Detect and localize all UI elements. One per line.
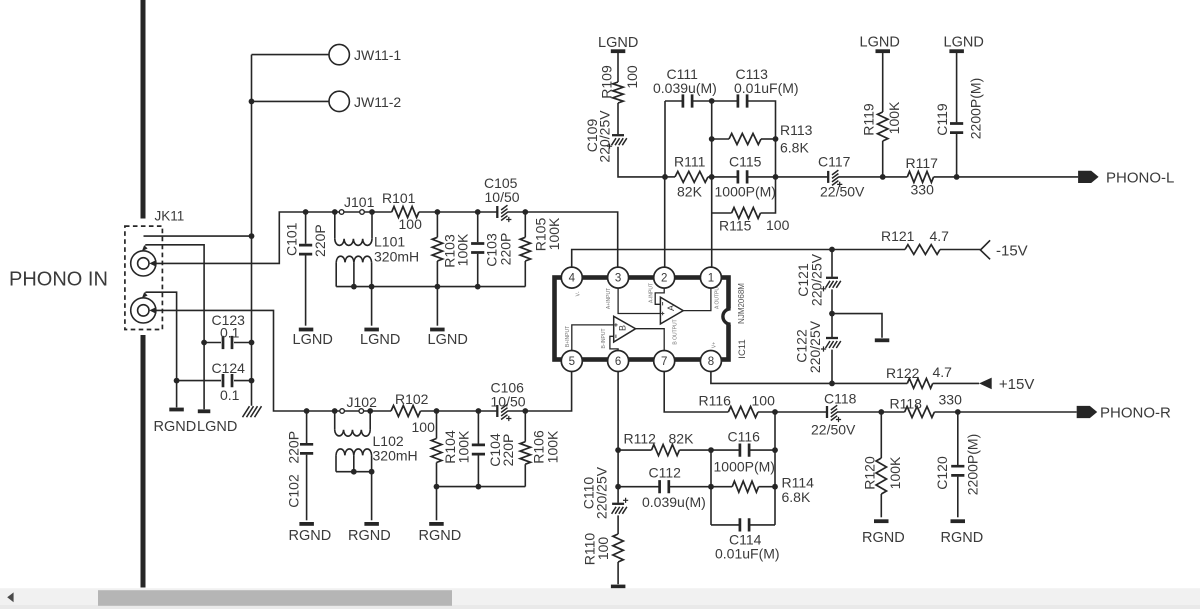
capacitor C118 (series electrolytic) [826,406,828,418]
svg-text:R112: R112 [624,431,657,447]
svg-text:4.7: 4.7 [933,364,953,380]
svg-text:220P: 220P [285,431,301,464]
resistor R106 [522,408,528,414]
svg-text:LGND: LGND [860,35,900,51]
resistor R104 [434,408,440,414]
svg-text:100: 100 [766,217,790,233]
wire pin7 internal [636,329,665,351]
svg-text:1000P(M): 1000P(M) [714,459,775,475]
wire pin6 internal [610,336,618,350]
jumper pad JW11-2 [329,91,349,111]
svg-text:100K: 100K [454,233,470,266]
wire C111 to C113 [692,100,739,102]
chassis ground (JW11 net) [243,406,262,417]
scrollbar track [0,588,1200,605]
svg-text:R102: R102 [395,391,429,407]
wire X2R riser [774,412,776,525]
wire pin2 riser [664,177,666,267]
ground LGND (L101) [364,328,379,332]
svg-text:C119: C119 [934,103,950,136]
resistor R116 [728,407,758,418]
ground RGND (C102) [299,522,314,526]
wire R109 to C109 [617,103,619,134]
wire input row after R101 [419,211,497,213]
svg-text:C117: C117 [818,154,851,170]
svg-text:RGND: RGND [154,419,197,435]
wire -15V rail from pin4 [572,250,905,268]
wire pin3 internal [618,288,660,313]
svg-text:PHONO-L: PHONO-L [1106,170,1174,187]
svg-text:JW11-2: JW11-2 [354,94,401,110]
wire jack L signal to input row [156,212,392,263]
IC IC11 body [555,278,729,360]
node feedback L input [662,174,668,180]
wire C115 right [747,176,829,178]
capacitor C112 [618,486,660,488]
svg-text:100: 100 [595,537,611,561]
svg-text:R101: R101 [382,190,416,206]
svg-text:-15V: -15V [996,243,1028,260]
wire input row to pin3 [507,212,617,267]
svg-text:JK11: JK11 [155,209,185,224]
resistor R115 parallel loop [712,212,732,214]
capacitor C111 [665,100,683,102]
svg-text:4: 4 [569,273,576,285]
terminal -15V [980,240,990,259]
capacitor C105 (series electrolytic) [496,206,498,218]
svg-text:6.8K: 6.8K [782,489,811,505]
svg-text:22/50V: 22/50V [811,422,856,438]
pin 7 [654,351,675,372]
wire input row to pin5 [507,372,571,411]
svg-text:0.039u(M): 0.039u(M) [642,494,706,510]
capacitor C117 (series electrolytic) [827,171,829,183]
wire R122 to +15V [933,382,979,384]
capacitor C124 [223,374,232,387]
svg-text:100K: 100K [545,430,561,463]
svg-text:R109: R109 [599,65,615,99]
svg-text:4.7: 4.7 [930,228,950,244]
svg-text:100: 100 [399,216,423,232]
svg-text:330: 330 [939,392,963,408]
pin 8 [700,351,721,372]
wire jack R shield to RGND column [145,292,176,407]
svg-text:220/25V: 220/25V [597,110,613,163]
svg-text:0.1: 0.1 [220,387,240,403]
ground LGND (jack) [198,409,211,413]
svg-text:PHONO-R: PHONO-R [1100,405,1171,422]
svg-text:R113: R113 [780,122,813,138]
svg-text:100K: 100K [546,217,562,250]
capacitor C115 [738,170,747,183]
terminal +15V [979,378,992,390]
svg-text:330: 330 [911,182,935,198]
svg-text:82K: 82K [669,431,695,447]
svg-text:3: 3 [615,273,621,285]
svg-text:IC11: IC11 [737,339,748,358]
capacitor C122 (electrolytic) [826,337,838,339]
svg-text:82K: 82K [677,184,703,200]
capacitor C123 [223,336,232,349]
svg-text:0.01uF(M): 0.01uF(M) [715,546,780,562]
svg-text:R111: R111 [674,154,706,170]
svg-text:8: 8 [708,356,714,368]
resistor R109 [613,82,623,103]
svg-text:NJM2068M: NJM2068M [737,283,746,324]
svg-text:LGND: LGND [598,35,638,51]
wire pin2 internal [655,288,664,304]
svg-text:100: 100 [624,65,640,89]
wire jack L shield to LGND column [145,245,204,409]
svg-text:LGND: LGND [293,332,333,348]
svg-text:100K: 100K [456,430,472,463]
svg-text:6: 6 [615,356,621,368]
capacitor C119 to LGND [949,49,964,53]
junction JW11-2 [249,99,255,105]
capacitor C120 to RGND [957,412,959,465]
svg-text:220/25V: 220/25V [593,466,609,519]
resistor R111 [665,176,675,178]
wire C117 to R117 [838,176,907,178]
resistor R117 [907,171,933,182]
wire LGND drop R103 rail [436,287,438,326]
terminal PHONO-R [1077,406,1098,418]
svg-text:220P: 220P [500,434,516,467]
svg-text:B-INPUT: B-INPUT [601,329,607,349]
svg-text:100: 100 [412,419,436,435]
svg-text:10/50: 10/50 [491,394,526,410]
svg-text:320mH: 320mH [374,248,419,264]
svg-text:6.8K: 6.8K [780,140,809,156]
wire input row after R102 [421,410,498,412]
wire R121 to -15V [940,249,980,251]
svg-text:RGND: RGND [289,528,332,544]
scrollbar left arrow [7,592,13,602]
RCA jack L (top) [131,251,156,276]
capacitor C113 [738,94,747,107]
wire pin6 column to C112 node [617,450,619,487]
wire pin7 to R116 [664,372,728,412]
svg-text:A-INPUT: A-INPUT [649,283,655,303]
svg-text:C120: C120 [934,456,950,490]
resistor R112 [618,449,651,451]
svg-text:0.039u(M): 0.039u(M) [653,80,717,96]
capacitor C104 [476,408,482,414]
svg-text:C115: C115 [729,154,762,170]
svg-text:+15V: +15V [999,376,1034,393]
wire R117 to PHONO-L [934,176,1079,178]
resistor R110 [617,515,619,534]
capacitor C106 (series electrolytic) [496,405,498,417]
svg-text:C116: C116 [728,429,761,445]
resistor R103 [435,209,441,215]
wire +15V rail from pin8 [711,372,907,384]
svg-text:22/50V: 22/50V [820,184,865,200]
capacitor C116 [711,449,740,451]
svg-text:B: B [618,325,628,331]
svg-text:RGND: RGND [348,528,391,544]
svg-text:LGND: LGND [944,35,984,51]
wire midpoint to ground bar [832,314,882,338]
svg-text:0.01uF(M): 0.01uF(M) [734,80,799,96]
svg-text:RGND: RGND [419,528,462,544]
svg-text:100: 100 [752,393,776,409]
svg-text:C112: C112 [649,465,682,481]
wire X1 riser [711,101,713,177]
pin 4 [561,267,582,288]
op-amp A [660,297,683,324]
svg-text:LGND: LGND [360,332,400,348]
jumper pad JW11-1 [329,44,349,64]
svg-text:R115: R115 [719,218,752,234]
svg-text:C124: C124 [212,360,246,376]
resistor R121 [905,245,940,255]
pin 6 [608,351,629,372]
resistor R114 [711,486,732,488]
svg-text:R119: R119 [861,103,877,136]
svg-text:C101: C101 [284,222,300,256]
resistor R101 [392,207,419,218]
wire L ground rail [336,286,525,288]
RCA jack R (bottom) [131,298,156,323]
svg-text:V-: V- [575,291,581,296]
resistor R119 to LGND [876,49,891,53]
wire RGND drop L102 [371,472,373,521]
svg-text:0.1: 0.1 [220,324,240,340]
resistor R120 to RGND [880,412,882,458]
capacitor C103 [475,209,481,215]
svg-text:J101: J101 [344,194,375,210]
ground RGND (jack) [169,408,184,412]
svg-text:LGND: LGND [428,332,468,348]
svg-text:C102: C102 [285,474,301,508]
svg-text:RGND: RGND [941,530,984,546]
wire R118 to PHONO-R [934,411,1076,413]
wire C124 row [177,380,221,382]
wire C118 to R118 [837,411,905,413]
capacitor C114 loop [711,524,740,526]
ground RGND (L102) [364,522,379,526]
inductor L102 winding 1 [334,411,336,430]
wire LGND to R109 [617,53,619,82]
svg-text:1: 1 [708,273,714,285]
resistor R105 [522,209,528,215]
svg-text:B+INPUT: B+INPUT [565,326,571,347]
wire LGND drop L101 [371,287,373,326]
svg-text:JW11-1: JW11-1 [354,47,401,63]
terminal bar R110 bottom [611,585,626,589]
svg-text:10/50: 10/50 [485,189,520,205]
svg-text:L101: L101 [374,234,405,250]
svg-text:2: 2 [661,273,667,285]
jumper J102 [332,408,338,414]
ground LGND (C101) [299,328,314,332]
scrollbar thumb [98,590,452,606]
op-amp B [614,316,636,342]
wire pin1 internal [683,288,711,311]
svg-text:R117: R117 [906,155,939,171]
capacitor C101 to LGND [305,212,307,244]
capacitor C109 (electrolytic) [612,134,624,136]
inductor L101 winding 2 [336,256,371,262]
ground RGND (rail) [429,522,444,526]
svg-text:C118: C118 [824,391,857,407]
ground bar (decoupling midpoint) [875,338,890,342]
connector JK11 dashed outline [125,226,162,329]
pin 3 [608,267,629,288]
svg-text:2200P(M): 2200P(M) [965,434,981,495]
svg-text:220/25V: 220/25V [808,253,824,306]
wire JW11 vertical net [251,55,253,406]
svg-text:LGND: LGND [197,419,237,435]
svg-text:100K: 100K [887,456,903,489]
wire pin5 internal [572,325,614,351]
svg-text:A: A [666,305,676,311]
svg-text:220/25V: 220/25V [807,320,823,373]
svg-text:320mH: 320mH [373,448,418,464]
wire jack R signal to input row [156,310,391,411]
wire C111 loop left riser [664,101,666,177]
resistor R118 [905,407,935,418]
wire C123 row [204,342,221,344]
svg-text:A+INPUT: A+INPUT [606,288,612,309]
svg-text:1000P(M): 1000P(M) [715,184,776,200]
thick bus line (left page border) [141,0,146,219]
junction C121 [829,247,835,253]
wire L102 ground rail [336,471,372,473]
svg-text:B OUTPUT: B OUTPUT [672,319,678,344]
wire R116 to C118 [758,411,827,413]
wire R ground rail [437,486,526,488]
wire C113 right riser [747,101,776,177]
inductor L102 winding 2 [336,449,372,455]
pin 1 [700,267,721,288]
wire RGND drop rail [436,487,438,521]
capacitor C121 (electrolytic) [831,250,833,277]
pin 2 [654,267,675,288]
ground LGND (R109) [611,49,626,53]
svg-text:5: 5 [569,356,575,368]
svg-text:220P: 220P [312,224,328,257]
svg-text:R122: R122 [886,365,920,381]
svg-text:R118: R118 [890,396,923,412]
capacitor C110 (electrolytic) [617,487,619,503]
svg-text:R121: R121 [881,228,915,244]
wire X1R riser [710,450,712,525]
terminal PHONO-L [1078,171,1099,183]
svg-text:J102: J102 [347,394,378,410]
svg-text:2200P(M): 2200P(M) [968,78,984,139]
ground LGND (rail) [430,328,445,332]
svg-text:7: 7 [661,356,667,368]
junction shield/JW11 [249,233,255,239]
wire to JW11-1 [252,54,330,56]
resistor R102 [391,406,421,417]
wire C109 to node [618,147,665,177]
svg-text:220P: 220P [497,233,513,266]
wire to JW11-2 [252,100,330,102]
svg-text:R116: R116 [699,393,732,409]
wire pin1 riser [711,177,713,267]
capacitor C102 to RGND [306,411,308,443]
svg-text:RGND: RGND [862,530,905,546]
resistor R113 [709,136,715,142]
wire pin6 column [617,372,619,450]
inductor L101 winding 1 [334,212,336,239]
svg-text:R120: R120 [862,456,878,490]
svg-text:PHONO IN: PHONO IN [9,269,108,291]
jumper J101 [332,209,338,215]
pin 5 [561,351,582,372]
node C121/C122 midpoint [829,311,835,317]
svg-text:100K: 100K [886,101,902,134]
resistor R122 [907,379,932,389]
wire jack L shield upper stub [144,235,252,237]
svg-text:V+: V+ [712,342,718,348]
